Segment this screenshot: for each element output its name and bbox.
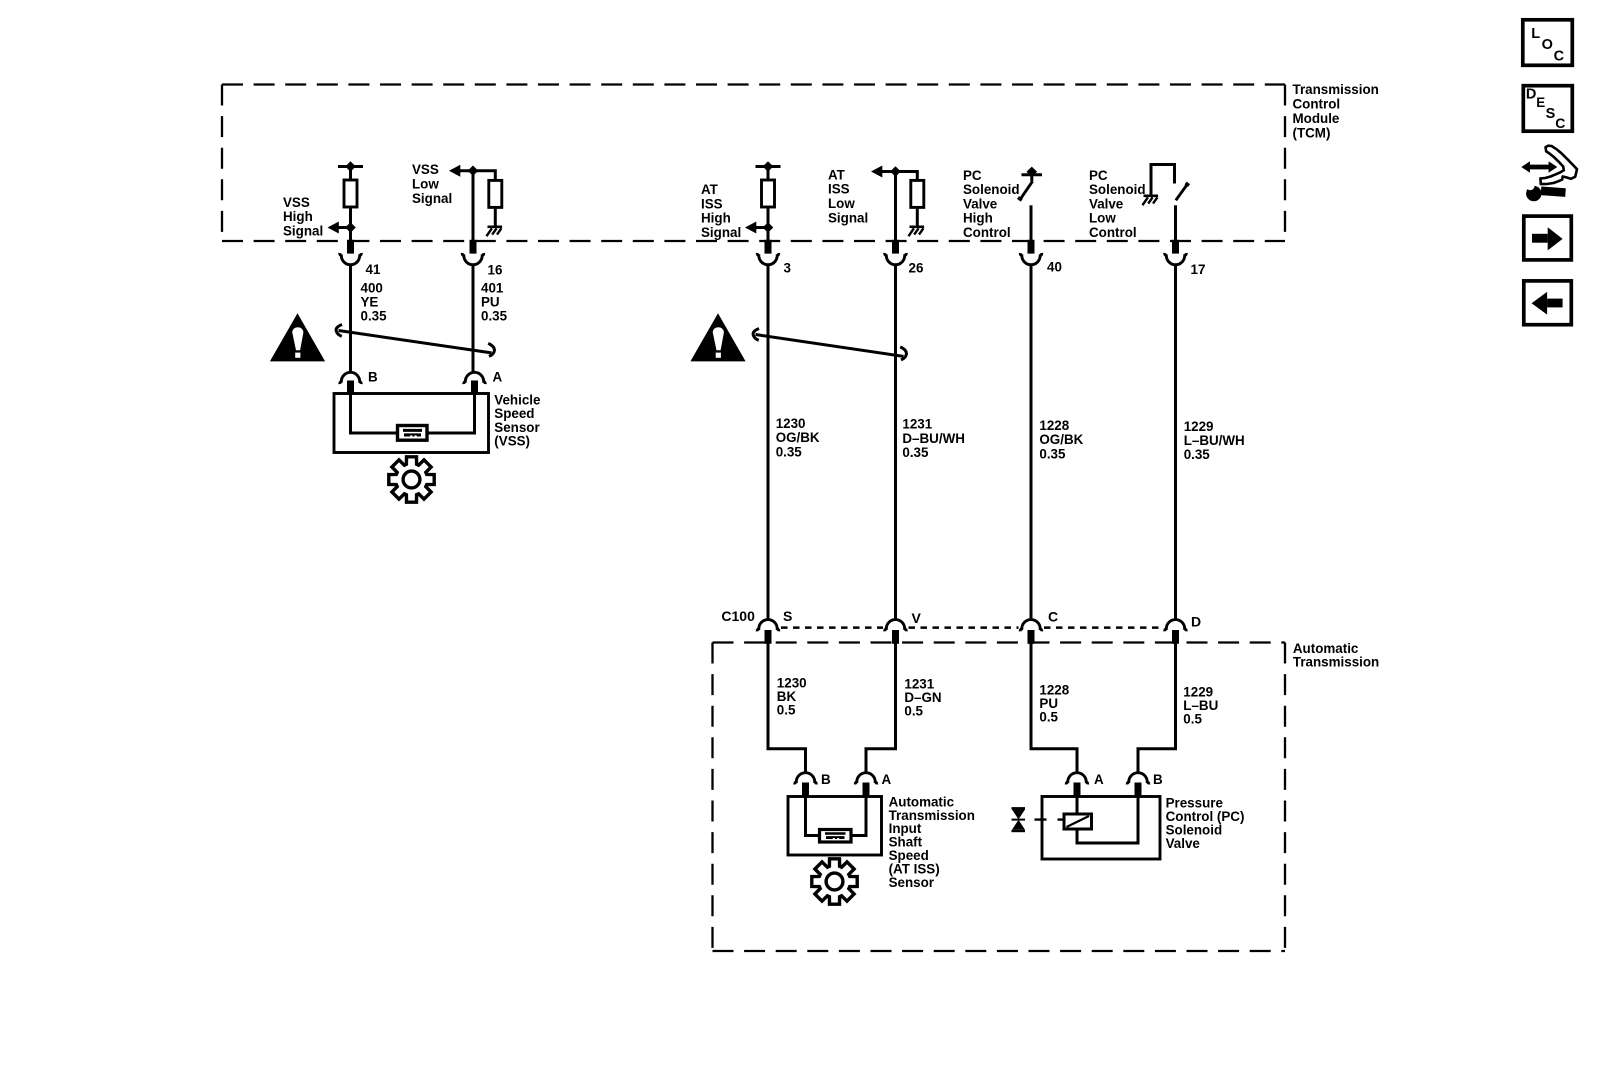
terminal S label xyxy=(783,608,792,624)
resistor AT ISS low xyxy=(911,180,924,207)
AT ISS gear icon xyxy=(812,859,857,904)
icon back arrow button xyxy=(1524,281,1572,325)
pin 41 terminal xyxy=(340,240,361,265)
resistor VSS low xyxy=(489,180,502,207)
pin 26 terminal xyxy=(885,240,906,265)
pin 16 terminal xyxy=(462,240,483,265)
VSS high signal driver: node bar xyxy=(338,162,363,180)
terminal A label xyxy=(882,772,892,787)
icon diagnostic wrench xyxy=(1521,146,1577,202)
svg-text:A: A xyxy=(1094,772,1104,787)
label VSS Low Signal xyxy=(412,162,452,206)
connector A at VSS xyxy=(464,372,485,394)
ground VSS low xyxy=(487,227,503,236)
AT ISS sensing element xyxy=(820,830,852,843)
pin 41 label xyxy=(366,262,381,277)
hydraulic valve symbol xyxy=(1012,808,1026,831)
terminal C label xyxy=(1048,609,1058,625)
svg-text:S: S xyxy=(1546,106,1556,122)
svg-text:41: 41 xyxy=(366,262,381,277)
terminal B label xyxy=(1153,772,1163,787)
icon LOC button xyxy=(1523,20,1573,66)
label AT ISS Low Signal xyxy=(828,167,868,225)
svg-text:A: A xyxy=(493,370,503,385)
wire 1228 PU xyxy=(1031,644,1077,773)
pin 40 label xyxy=(1047,260,1062,275)
terminal V label xyxy=(912,610,922,626)
hydraulic dashed link xyxy=(1035,818,1065,820)
AT ISS sensor box xyxy=(788,797,882,856)
pin 3 label xyxy=(784,261,791,276)
wire 1229 L-BU xyxy=(1138,644,1176,773)
connector A at PC solenoid xyxy=(1066,773,1087,797)
wire 1228 OG/BK label xyxy=(1039,418,1083,461)
chafe indicator line VSS xyxy=(336,325,494,357)
wire 1230 OG/BK label xyxy=(776,416,820,459)
C100 terminal V xyxy=(885,620,906,644)
svg-text:E: E xyxy=(1536,95,1545,110)
svg-text:D: D xyxy=(1191,614,1201,630)
AT ISS High Signal arrow tap xyxy=(745,222,773,234)
terminal D label xyxy=(1191,614,1201,630)
pin 17 terminal xyxy=(1165,240,1186,265)
VSS low signal: arrow and node xyxy=(449,165,495,181)
terminal B label xyxy=(368,370,378,385)
svg-text:B: B xyxy=(821,772,831,787)
PC solenoid internal wiring xyxy=(1077,797,1138,844)
terminal A label xyxy=(493,370,503,385)
wire 1231 D-GN xyxy=(866,644,896,773)
pin 26 label xyxy=(909,261,924,276)
wire 1229 L-BU label xyxy=(1183,685,1218,727)
VSS High Signal arrow tap xyxy=(328,222,356,234)
wire resistor to ground xyxy=(494,207,497,226)
label Automatic Transmission xyxy=(1293,641,1379,670)
pin 3 terminal xyxy=(757,240,778,265)
connector C100 label xyxy=(721,608,755,624)
pin 16 label xyxy=(488,263,503,278)
terminal A label xyxy=(1094,772,1104,787)
AT ISS low signal: arrow and node xyxy=(871,166,917,181)
icon DESC button xyxy=(1523,86,1572,132)
C100 terminal C xyxy=(1020,620,1041,644)
PC solenoid valve low control: ground hook xyxy=(1151,165,1175,196)
label Pressure Control (PC) Solenoid Valve xyxy=(1166,796,1245,851)
label Transmission Control Module (TCM) xyxy=(1293,82,1379,141)
wire resistor to ground xyxy=(916,207,919,226)
pin 17 label xyxy=(1191,262,1206,277)
wire resistor to border xyxy=(767,207,770,241)
wire resistor to border xyxy=(349,207,352,241)
svg-text:B: B xyxy=(368,370,378,385)
svg-text:C: C xyxy=(1048,609,1058,625)
VSS gear icon xyxy=(389,457,434,502)
ground AT ISS low xyxy=(909,227,925,236)
label PC Solenoid Valve High Control xyxy=(963,168,1020,240)
wire 1230 BK xyxy=(768,644,806,773)
warning triangle AT ISS circuit xyxy=(690,313,745,361)
wire 400 YE xyxy=(349,266,352,373)
svg-text:17: 17 xyxy=(1191,262,1206,277)
svg-text:V: V xyxy=(912,610,922,626)
svg-text:O: O xyxy=(1542,37,1553,53)
svg-text:C: C xyxy=(1554,48,1565,64)
label Vehicle Speed Sensor (VSS) xyxy=(494,392,540,448)
wire PC high to pin 40 xyxy=(1030,205,1033,241)
svg-text:D: D xyxy=(1526,87,1536,103)
svg-text:S: S xyxy=(783,608,792,624)
C100 terminal S xyxy=(757,620,778,644)
wire 1229 L-BU/WH label xyxy=(1184,419,1245,462)
C100 terminal D xyxy=(1165,620,1186,644)
wire 1230 OG/BK xyxy=(767,266,770,620)
AT ISS high signal driver: node bar xyxy=(756,162,781,180)
ground PC low xyxy=(1143,196,1159,205)
wire 401 PU xyxy=(472,266,475,373)
wire 1228 PU label xyxy=(1039,683,1069,725)
wire PC low to pin 17 xyxy=(1174,205,1177,241)
chafe indicator line AT ISS xyxy=(753,329,906,360)
wire 1231 D-BU/WH label xyxy=(902,417,965,460)
wire VSS low to pin 16 xyxy=(472,171,475,241)
svg-text:40: 40 xyxy=(1047,260,1062,275)
wire 1228 OG/BK xyxy=(1030,266,1033,620)
icon next arrow button xyxy=(1524,216,1572,260)
VSS internal wiring xyxy=(351,394,475,434)
connector B at AT ISS sensor xyxy=(795,773,816,797)
connector A at AT ISS sensor xyxy=(855,773,876,797)
Vehicle Speed Sensor box xyxy=(334,394,489,453)
wire 1231 D-GN label xyxy=(904,677,941,719)
svg-text:16: 16 xyxy=(488,263,503,278)
resistor VSS high xyxy=(344,180,357,207)
Transmission Control Module (TCM) dashed box xyxy=(222,85,1285,242)
pin 40 terminal xyxy=(1020,240,1041,265)
PC solenoid valve high control switch xyxy=(1018,167,1042,200)
label PC Solenoid Valve Low Control xyxy=(1089,168,1146,240)
svg-text:3: 3 xyxy=(784,261,791,276)
label AT ISS High Signal xyxy=(701,182,741,240)
label Automatic Transmission Input Shaft Speed (AT ISS) Sensor xyxy=(889,794,975,889)
svg-text:A: A xyxy=(882,772,892,787)
PC low switch blade xyxy=(1176,183,1189,200)
svg-text:C: C xyxy=(1555,115,1565,131)
PC solenoid coil element xyxy=(1064,814,1092,829)
wire 401 PU label xyxy=(481,281,508,324)
wire 1230 BK label xyxy=(777,676,807,718)
label VSS High Signal xyxy=(283,195,323,238)
VSS sensing element xyxy=(398,426,428,441)
svg-text:C100: C100 xyxy=(721,608,755,624)
wire 1231 D-BU/WH xyxy=(894,266,897,620)
wire AT ISS low to pin 26 xyxy=(894,172,897,242)
svg-text:B: B xyxy=(1153,772,1163,787)
Automatic Transmission dashed box xyxy=(713,643,1286,952)
warning triangle VSS circuit xyxy=(270,313,325,361)
C100 connector dotted tie line xyxy=(781,626,1163,629)
wire 1229 L-BU/WH xyxy=(1174,266,1177,620)
AT ISS internal wiring xyxy=(806,797,867,836)
connector B at VSS xyxy=(340,372,361,394)
PC solenoid valve box xyxy=(1042,797,1160,860)
resistor AT ISS high xyxy=(762,180,775,207)
terminal B label xyxy=(821,772,831,787)
svg-text:L: L xyxy=(1531,26,1540,42)
connector B at PC solenoid xyxy=(1127,773,1148,797)
wire 400 YE label xyxy=(361,281,388,324)
svg-text:26: 26 xyxy=(909,261,924,276)
